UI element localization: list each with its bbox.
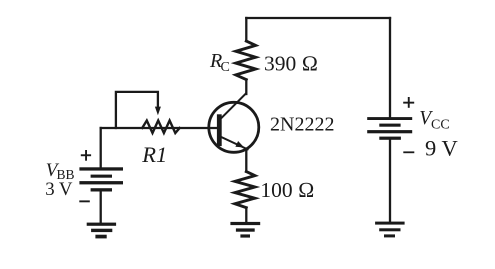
battery VCC plate short (379, 124, 400, 127)
minus sign VCC (403, 151, 414, 153)
wire VCC bottom to ground (389, 140, 391, 222)
transistor Q1 emitter arrowhead (235, 141, 244, 148)
resistor R1 zigzag (142, 121, 179, 134)
plus sign VBB (81, 154, 91, 156)
wire base horizontal (101, 127, 218, 129)
svg-text:R1: R1 (141, 142, 167, 167)
wire RC bottom to collector (245, 80, 247, 94)
ground below VCC (375, 222, 405, 225)
wire VBB top vertical (100, 128, 102, 167)
battery VCC plate long top (367, 117, 412, 120)
battery VBB plate long top (79, 167, 123, 170)
transistor Q1 circle (209, 102, 259, 152)
svg-text:2N2222: 2N2222 (270, 113, 334, 135)
minus sign VBB (79, 200, 90, 202)
potentiometer wiper arrowhead (155, 107, 161, 116)
resistor RE 100 ohm zigzag (235, 172, 255, 208)
battery VBB plate short bottom (91, 188, 112, 191)
svg-text:390 Ω: 390 Ω (264, 52, 318, 76)
battery VCC plate long bottom (367, 130, 412, 133)
svg-text:100 Ω: 100 Ω (260, 178, 314, 202)
svg-text:CC: CC (431, 117, 450, 132)
battery VCC plate short bottom (379, 137, 401, 140)
wire emitter vertical (245, 150, 247, 172)
svg-text:3 V: 3 V (45, 179, 73, 200)
battery VBB plate short (91, 175, 112, 178)
battery VBB plate long bottom (79, 181, 123, 184)
wire right vertical to Vcc (389, 18, 391, 117)
transistor Q1 emitter lead (222, 137, 248, 149)
wire wiper loop (116, 92, 158, 128)
plus sign VCC (403, 102, 414, 104)
wire RE bottom to ground (245, 208, 247, 222)
ground below RE (230, 222, 260, 225)
transistor Q1 base bar (217, 114, 222, 146)
ground below VBB (87, 223, 116, 226)
transistor Q1 collector lead (222, 94, 246, 118)
wire VBB bottom to ground (100, 192, 102, 223)
wire collector top vertical (245, 18, 247, 41)
svg-text:9 V: 9 V (425, 136, 458, 161)
resistor RC 390 ohm zigzag (236, 41, 256, 80)
wire top horizontal (246, 17, 390, 19)
svg-text:C: C (221, 60, 230, 75)
